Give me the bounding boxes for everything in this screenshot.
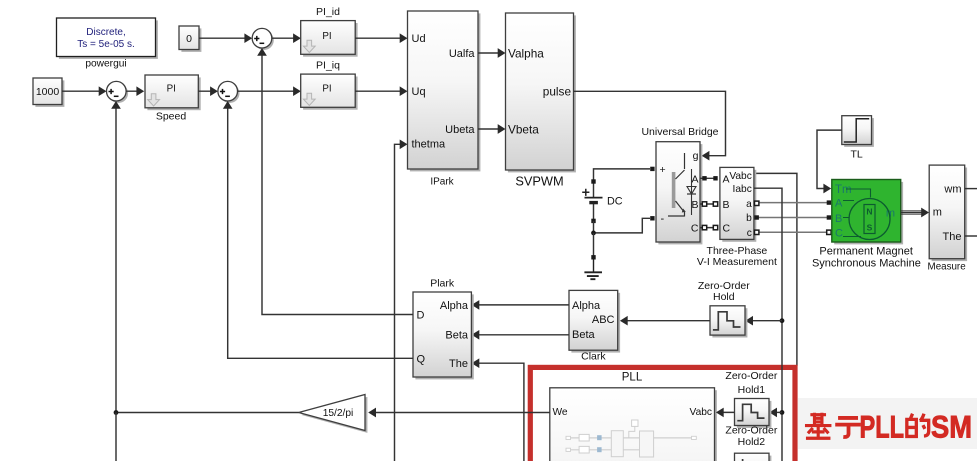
- svg-text:Ubeta: Ubeta: [445, 124, 475, 136]
- wire phase b: [757, 217, 829, 219]
- block PI controller Speed: [145, 75, 201, 110]
- annotation text 基: [805, 413, 831, 438]
- wire sum1 to Speed PI: [126, 90, 142, 92]
- svg-text:Speed: Speed: [156, 110, 187, 122]
- svg-text:PLL: PLL: [622, 371, 643, 383]
- svg-text:pulse: pulse: [543, 84, 572, 98]
- annotation text 于: [835, 418, 861, 437]
- wire wm out: [965, 188, 977, 190]
- svg-text:The: The: [449, 358, 468, 370]
- wire DC minus to bridge: [594, 218, 651, 233]
- wire 1000 to sum1: [62, 90, 105, 92]
- DC voltage source battery: [582, 169, 650, 223]
- wire Vabc vertical: [754, 173, 797, 366]
- svg-text:Iabc: Iabc: [733, 184, 752, 195]
- annotation background band: [798, 398, 977, 449]
- svg-text:+: +: [660, 164, 666, 176]
- svg-text:C: C: [723, 223, 731, 235]
- svg-text:Vabc: Vabc: [690, 407, 712, 418]
- wire phase c: [757, 231, 829, 233]
- block subsystem Plark: [413, 292, 474, 379]
- ground symbol: [584, 260, 602, 280]
- wire Alpha: [473, 304, 569, 306]
- svg-text:PI: PI: [167, 83, 176, 94]
- junction Iabc to hold1: [780, 410, 785, 415]
- svg-text:c: c: [747, 228, 752, 239]
- svg-text:PI: PI: [322, 84, 331, 95]
- svg-text:Clark: Clark: [581, 351, 606, 363]
- wire PI_iq to IPark Uq: [355, 90, 406, 92]
- svg-text:0: 0: [186, 33, 192, 45]
- svg-text:Alpha: Alpha: [572, 300, 601, 312]
- annotation text 的: [907, 414, 929, 437]
- svg-text:A: A: [835, 197, 843, 209]
- block subsystem PLL: [550, 388, 717, 461]
- svg-text:Plark: Plark: [430, 278, 455, 290]
- wire Ualfa to Valpha: [478, 52, 504, 54]
- block PI controller PI_iq: [301, 74, 358, 110]
- svg-text:a: a: [746, 199, 752, 210]
- block constant 0: [179, 26, 201, 52]
- svg-text:Discrete,: Discrete,: [86, 27, 125, 38]
- svg-text:1000: 1000: [36, 86, 60, 98]
- junction DC ground: [591, 231, 596, 236]
- Permanent Magnet Synchronous Machine: [832, 180, 903, 245]
- block Universal Bridge: [656, 142, 702, 245]
- svg-text:B: B: [691, 199, 698, 211]
- svg-text:SVPWM: SVPWM: [515, 173, 563, 188]
- svg-text:Ud: Ud: [412, 33, 426, 45]
- svg-text:SM: SM: [931, 409, 972, 445]
- svg-text:Ualfa: Ualfa: [449, 48, 476, 60]
- svg-text:C: C: [835, 228, 843, 240]
- svg-text:We: We: [553, 407, 568, 418]
- svg-text:ABC: ABC: [592, 314, 615, 326]
- svg-text:The: The: [943, 231, 962, 243]
- svg-text:Hold: Hold: [713, 291, 735, 303]
- block Zero-Order Hold2: [735, 453, 772, 461]
- bridge port squares + wires to V-I measurement: [650, 167, 718, 230]
- wire TL to Tm: [817, 130, 842, 188]
- svg-text:IPark: IPark: [430, 177, 454, 188]
- svg-text:Q: Q: [417, 353, 426, 365]
- junction gain feedback: [114, 410, 119, 415]
- svg-text:Zero-Order: Zero-Order: [725, 370, 777, 382]
- wire phase a: [757, 202, 829, 204]
- svg-text:N: N: [866, 207, 872, 217]
- junction Iabc to hold: [780, 318, 785, 323]
- block PI controller PI_id: [301, 21, 358, 57]
- svg-text:Tm: Tm: [835, 184, 852, 196]
- wire The from below: [473, 363, 524, 461]
- svg-text:C: C: [691, 223, 699, 235]
- svg-text:Hold2: Hold2: [738, 436, 766, 448]
- wire pulse to bridge gate: [574, 91, 726, 155]
- svg-text:Ts = 5e-05 s.: Ts = 5e-05 s.: [77, 39, 135, 50]
- svg-text:m: m: [933, 206, 942, 218]
- svg-text:wm: wm: [943, 183, 961, 195]
- sum id error: [252, 28, 274, 50]
- block constant 1000: [33, 78, 64, 107]
- block subsystem Measure: [929, 165, 967, 261]
- gain 15/2/pi: [299, 395, 368, 433]
- svg-text:PI_id: PI_id: [316, 6, 340, 18]
- svg-text:Beta: Beta: [572, 329, 596, 341]
- svg-text:B: B: [835, 213, 842, 225]
- block subsystem Clark: [569, 290, 620, 352]
- wire to Zero-Order Hold1: [771, 411, 783, 413]
- svg-text:Synchronous Machine: Synchronous Machine: [812, 258, 921, 270]
- wire We to gain: [370, 412, 550, 414]
- svg-text:-: -: [661, 213, 665, 225]
- block Zero-Order Hold1: [735, 399, 772, 428]
- block Zero-Order Hold: [710, 306, 747, 338]
- svg-text:DC: DC: [607, 196, 623, 208]
- wire feedback down: [115, 413, 117, 461]
- svg-text:Permanent Magnet: Permanent Magnet: [819, 245, 913, 257]
- wire PI_id to IPark Ud: [355, 37, 406, 39]
- svg-text:TL: TL: [850, 148, 862, 160]
- wire Speed PI to sum2: [198, 90, 216, 92]
- wire D feedback to sum3: [262, 50, 413, 315]
- svg-text:S: S: [867, 223, 873, 233]
- svg-text:Beta: Beta: [445, 330, 469, 342]
- svg-text:thetma: thetma: [412, 139, 447, 151]
- svg-text:V-I Measurement: V-I Measurement: [697, 256, 777, 268]
- wire gain out to sum1 feedback: [116, 103, 299, 413]
- block subsystem SVPWM: [506, 13, 576, 172]
- svg-text:D: D: [417, 310, 425, 322]
- wire 0 to sum3: [199, 37, 251, 39]
- svg-text:Universal Bridge: Universal Bridge: [641, 126, 718, 138]
- svg-text:Uq: Uq: [412, 86, 426, 98]
- svg-text:Hold1: Hold1: [738, 384, 766, 396]
- svg-text:Vabc: Vabc: [729, 171, 751, 182]
- wire The out: [965, 235, 977, 237]
- svg-text:Valpha: Valpha: [508, 46, 544, 60]
- svg-text:A: A: [691, 173, 698, 185]
- svg-text:15/2/pi: 15/2/pi: [323, 408, 354, 419]
- block subsystem IPark: [408, 11, 481, 171]
- svg-text:B: B: [723, 199, 730, 211]
- wire Beta: [473, 334, 569, 336]
- block Three-Phase V-I Measurement: [720, 167, 756, 241]
- wire Ubeta to Vbeta: [478, 128, 504, 130]
- sum iq error: [218, 81, 240, 103]
- svg-text:b: b: [746, 213, 752, 224]
- wire to Zero-Order Hold: [747, 320, 783, 322]
- wire hold1 to PLL Vabc: [717, 411, 734, 413]
- wire Iabc down: [754, 188, 782, 461]
- wire m vector bus: [901, 210, 926, 212]
- svg-text:powergui: powergui: [85, 59, 126, 70]
- wire thetma vertical: [395, 144, 406, 461]
- block step TL: [842, 116, 874, 147]
- wire sum2 to PI_iq: [238, 90, 300, 92]
- svg-text:PLL: PLL: [860, 409, 905, 445]
- svg-text:Measure: Measure: [928, 261, 967, 272]
- svg-text:Vbeta: Vbeta: [508, 122, 539, 136]
- block powergui: [57, 18, 158, 59]
- svg-text:g: g: [693, 150, 699, 162]
- svg-text:Alpha: Alpha: [440, 300, 469, 312]
- svg-text:Zero-Order: Zero-Order: [725, 425, 777, 437]
- sum speed error: [107, 81, 129, 103]
- wire to ground: [593, 233, 595, 257]
- wire hold to Clark ABC: [621, 320, 710, 322]
- red annotation box (PLL region): [530, 367, 795, 461]
- svg-text:PI_iq: PI_iq: [316, 59, 340, 71]
- wire sum3 to PI_id: [272, 37, 299, 39]
- svg-text:PI: PI: [322, 31, 331, 42]
- wire Q feedback to sum2: [228, 103, 413, 359]
